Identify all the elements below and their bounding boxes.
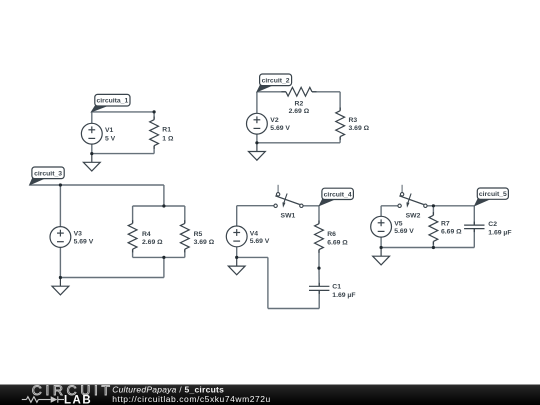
svg-text:R7: R7 [441,220,450,227]
svg-text:5.69 V: 5.69 V [74,238,94,245]
svg-text:5.69 V: 5.69 V [250,238,270,245]
svg-text:V1: V1 [105,127,114,134]
svg-text:5.69 V: 5.69 V [270,125,290,132]
svg-text:R1: R1 [162,127,171,134]
svg-text:C2: C2 [488,221,497,228]
svg-text:1 Ω: 1 Ω [162,136,174,143]
svg-text:R3: R3 [349,117,358,124]
svg-text:C1: C1 [332,284,341,291]
svg-text:circuit_3: circuit_3 [34,170,62,177]
svg-text:2.69 Ω: 2.69 Ω [142,239,163,246]
svg-text:V5: V5 [394,221,403,228]
svg-text:6.69 Ω: 6.69 Ω [441,229,462,236]
svg-text:3.69 Ω: 3.69 Ω [194,239,215,246]
svg-text:R5: R5 [194,231,203,238]
svg-text:2.69 Ω: 2.69 Ω [289,108,310,115]
svg-text:1.69 µF: 1.69 µF [488,230,511,237]
svg-text:circuit_2: circuit_2 [262,77,290,84]
svg-text:SW1: SW1 [281,213,296,220]
svg-text:V4: V4 [250,231,259,238]
svg-text:http://circuitlab.com/c5xku74w: http://circuitlab.com/c5xku74wm272u [112,394,271,404]
svg-text:LAB: LAB [64,395,92,405]
svg-text:6.69 Ω: 6.69 Ω [327,240,348,247]
svg-text:5 V: 5 V [105,135,116,142]
svg-text:circuita_1: circuita_1 [97,98,129,105]
svg-text:V3: V3 [74,231,83,238]
svg-text:circuit_4: circuit_4 [324,191,352,198]
svg-text:R2: R2 [295,101,304,108]
svg-text:1.69 µF: 1.69 µF [332,292,355,299]
svg-text:5.69 V: 5.69 V [394,228,414,235]
svg-text:circuit_5: circuit_5 [479,191,507,198]
svg-text:CulturedPapaya / 5_circuts: CulturedPapaya / 5_circuts [112,384,224,394]
svg-text:V2: V2 [270,117,279,124]
svg-text:R4: R4 [142,231,151,238]
svg-text:3.69 Ω: 3.69 Ω [349,125,370,132]
svg-text:SW2: SW2 [406,212,421,219]
svg-text:R6: R6 [327,231,336,238]
